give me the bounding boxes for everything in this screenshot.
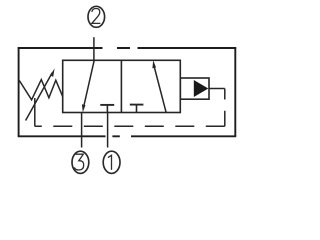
flow path 2->3 (left box diagonal)	[84, 60, 95, 107]
spring adjust arrowhead	[50, 68, 55, 77]
flow path 1->2 (right box diagonal)	[154, 66, 166, 113]
position divider	[120, 60, 122, 112]
envelope bottom edge (long dash, short dash, long dash)	[18, 135, 237, 137]
spring adjust arrow shaft	[26, 73, 53, 121]
node 3 circle	[72, 151, 89, 173]
envelope top edge (long dash, short dash, long dash)	[18, 47, 237, 49]
envelope right edge	[234, 47, 236, 136]
blocked port 3 (right box T)	[136, 105, 138, 113]
spring (adjustable)	[19, 80, 62, 100]
port 3 line	[81, 113, 83, 148]
port 2 line	[93, 37, 95, 60]
node 2 label	[92, 9, 101, 24]
node 3 label	[74, 154, 83, 170]
drain line (dashed)	[35, 125, 225, 127]
wire down segment (dashed)	[224, 89, 226, 127]
arrowhead up at port 2	[152, 60, 156, 68]
solenoid wire	[209, 88, 225, 90]
envelope left edge	[18, 47, 20, 136]
solenoid box U1	[180, 78, 209, 99]
node 1 circle	[103, 151, 120, 173]
valve body outline	[63, 60, 181, 112]
port 1 line	[107, 113, 109, 148]
arrowhead down at port 3	[82, 104, 86, 112]
blocked port 1 (left box T)	[106, 105, 108, 113]
drain left riser	[34, 98, 36, 126]
node 2 circle	[88, 6, 105, 27]
node 1 label	[108, 155, 112, 170]
solenoid triangle	[194, 80, 209, 97]
